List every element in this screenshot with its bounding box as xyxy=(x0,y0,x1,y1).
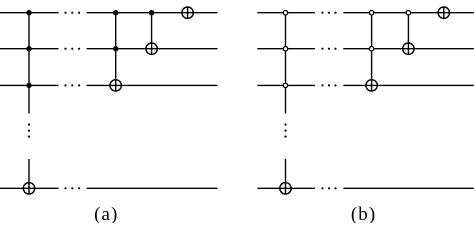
circuit (b) qubit wire q0 segment right xyxy=(343,12,474,14)
circuit (a) gate G1 CNOT target on qn xyxy=(23,183,34,194)
circuit (b) wire q0 ellipsis dots xyxy=(321,12,336,14)
circuit (a) qubit wire q2 segment right xyxy=(87,84,218,86)
circuit (a) gate G2 control dot on q0 xyxy=(113,10,118,15)
circuit (a) qubit wire q1 segment right xyxy=(87,48,218,50)
circuit (a) wire q1 ellipsis dots xyxy=(64,48,80,50)
circuit (a) wire q2 ellipsis dots xyxy=(64,84,80,86)
circuit (b) gate G1 open control on q1 xyxy=(283,47,287,51)
circuit (a) qubit wire q2 segment left xyxy=(0,84,59,86)
circuit (a) gate G3 control dot on q0 xyxy=(149,10,154,15)
circuit (b) qubit wire q1 segment right xyxy=(343,48,474,50)
circuit (a) gate G2 CNOT target on q2 xyxy=(110,80,121,91)
circuit (b) qubit wire q2 segment right xyxy=(343,84,474,86)
circuit (b) wire qn ellipsis dots xyxy=(321,187,336,189)
circuit (b) qubit wire qn segment left xyxy=(257,187,315,189)
circuit (b) gate G1 CNOT target on qn xyxy=(280,183,291,194)
circuit (a) qubit wire q1 segment left xyxy=(0,48,59,50)
circuit (a) wire q0 ellipsis dots xyxy=(64,12,80,14)
circuit (b) gate G4 NOT target on q0 xyxy=(438,7,449,18)
circuit (a) wire qn ellipsis dots xyxy=(64,187,80,189)
circuit (b) gate G2 control line xyxy=(371,13,373,91)
circuit (b) gate G3 control line xyxy=(407,13,409,55)
circuit (b) gate G1 control line upper xyxy=(285,13,287,114)
circuit (a) gate G4 NOT target on q0 xyxy=(182,7,193,18)
circuit (a) qubit wire qn segment left xyxy=(0,187,59,189)
circuit (a) gate G1 vertical ellipsis xyxy=(28,123,30,137)
circuit (b) gate G2 open control on q0 xyxy=(369,11,373,15)
circuit (b) gate G1 vertical ellipsis xyxy=(284,123,286,137)
circuit (b) gate G1 open control on q0 xyxy=(283,11,287,15)
circuit (b) gate G1 open control on q2 xyxy=(283,83,287,87)
circuit (b) qubit wire qn segment right xyxy=(343,187,474,189)
svg-text:(a): (a) xyxy=(94,204,118,223)
circuit (a) gate G2 control dot on q1 xyxy=(113,46,118,51)
circuit (b) gate G2 CNOT target on q2 xyxy=(366,80,377,91)
circuit (b) gate G2 open control on q1 xyxy=(369,47,373,51)
circuit (a) gate G3 CNOT target on q1 xyxy=(146,43,157,54)
circuit (b) gate G3 open control on q0 xyxy=(406,11,410,15)
circuit (a) gate G3 control line xyxy=(151,13,153,55)
circuit (a) gate G1 control line upper xyxy=(28,13,30,114)
circuit (a) qubit wire q0 segment right xyxy=(87,12,218,14)
circuit (a) gate G1 control line lower xyxy=(28,159,30,194)
circuit (a) gate G2 control line xyxy=(115,13,117,91)
circuit (b) qubit wire q0 segment left xyxy=(257,12,315,14)
circuit (a) gate G1 control dot on q2 xyxy=(26,83,31,88)
circuit (b) qubit wire q1 segment left xyxy=(257,48,315,50)
circuit (a) qubit wire q0 segment left xyxy=(0,12,59,14)
circuit (b) wire q1 ellipsis dots xyxy=(321,48,336,50)
circuit (a) gate G1 control dot on q1 xyxy=(26,46,31,51)
circuit (b) gate G1 control line lower xyxy=(285,159,287,194)
circuit (b) wire q2 ellipsis dots xyxy=(321,84,336,86)
svg-text:(b): (b) xyxy=(351,204,376,223)
circuit (b) qubit wire q2 segment left xyxy=(257,84,315,86)
circuit (a) gate G1 control dot on q0 xyxy=(26,10,31,15)
circuit (b) gate G3 CNOT target on q1 xyxy=(403,43,414,54)
circuit (a) qubit wire qn segment right xyxy=(87,187,218,189)
